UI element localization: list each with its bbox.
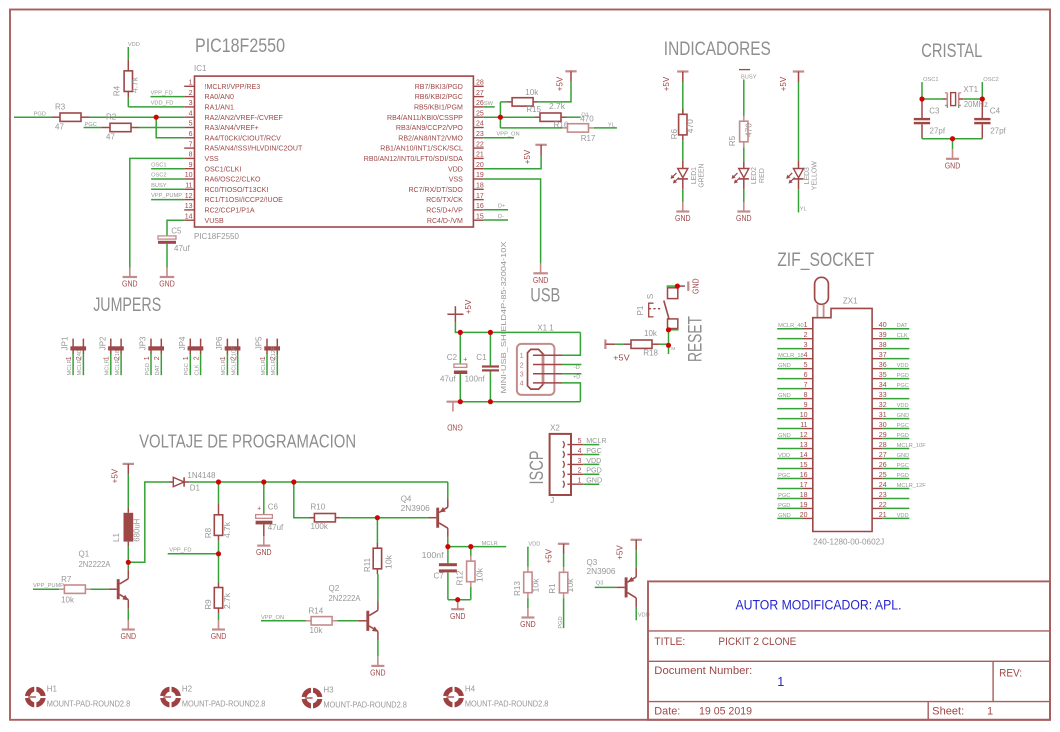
svg-text:JP5: JP5 [255,336,264,350]
svg-text:H1: H1 [47,685,58,694]
transistor Q1 2N2222A [108,588,117,590]
wire C2 top [459,332,461,364]
svg-text:MOUNT-PAD-ROUND2.8: MOUNT-PAD-ROUND2.8 [47,700,131,709]
svg-text:RB2/AN8/INT2/VMO: RB2/AN8/INT2/VMO [398,135,463,142]
svg-text:YL: YL [800,206,807,212]
wire LED3 to YL [798,189,800,212]
IC1 pin 7 RA5/AN4/!SS!/HLVDIN/C2OUT [184,147,194,149]
junction R18 node [666,343,671,348]
svg-text:1: 1 [578,478,582,485]
supply +5V (R15) [565,70,576,72]
svg-text:+5V: +5V [544,548,553,563]
svg-text:20: 20 [476,162,484,169]
IC1 pin 9 OSC1/CLKI [184,168,194,170]
ground GND (R9) [218,620,220,630]
svg-text:31: 31 [879,412,887,419]
svg-text:VPP_FD: VPP_FD [169,548,191,554]
ground GND (C7) [457,600,459,610]
wire C2 bottom [459,374,461,402]
wire Q3 collector to VDD [635,607,637,620]
svg-text:Q2: Q2 [329,584,340,593]
X1 pin 2 [533,364,562,366]
svg-text:YL: YL [608,122,615,128]
IC1 pin 27 RB6/KBI2/PGC [473,96,483,98]
ZX1 pin 11 [777,428,802,430]
wire MCLR to R12 [470,547,472,556]
ZX1 pin 12 [777,438,802,440]
ZX1 pin 30 [872,428,882,430]
ZX1 pin 26 [872,467,882,469]
wire pin20 to +5V [484,155,541,169]
svg-text:17: 17 [800,482,808,489]
wire switch bottom jog [669,329,678,330]
ground GND (Q1) [127,620,129,630]
svg-text:JUMPERS: JUMPERS [93,295,161,316]
IC1 pin 6 RA4/T0CKI/CIOUT/RCV [184,137,194,139]
node VPP_ON pin23 [484,137,514,139]
IC1 pin 15 RC4/D-/VM [473,219,483,221]
IC1 pin 3 RA1/AN1 [184,106,194,108]
junction R10 tap [291,479,296,484]
ZX1 pin 28 [872,448,882,450]
wire R2 to pin5 [139,127,184,129]
supply +5V (Q3) [631,539,642,541]
svg-text:24: 24 [476,121,484,128]
wire R14 to Q2 base [337,620,358,622]
svg-text:GND: GND [897,453,910,459]
ZX1 pin 9 [777,408,802,410]
svg-text:PGC: PGC [897,423,909,429]
mount pad H2 [163,689,179,705]
svg-text:-D: -D [574,365,580,371]
svg-text:IC1: IC1 [194,64,207,73]
svg-text:RB4/AN11/KBI0/CSSPP: RB4/AN11/KBI0/CSSPP [387,115,463,122]
junction L1/Q1 [126,560,131,565]
svg-text:28: 28 [879,442,887,449]
resistor R9 [218,583,220,588]
svg-text:OSC2: OSC2 [983,77,999,83]
supply +5V (VDD pin20) [535,144,546,146]
svg-text:22: 22 [476,141,484,148]
svg-text:2N2222A: 2N2222A [79,560,112,569]
X2 pin 3 VDD [563,461,565,468]
svg-text:RC2/CCP1/P1A: RC2/CCP1/P1A [205,208,255,215]
svg-text:2: 2 [189,90,193,97]
svg-text:2N3906: 2N3906 [587,567,617,576]
svg-text:+5V: +5V [523,149,532,164]
svg-text:VDD: VDD [586,456,601,465]
svg-text:+5V: +5V [556,76,565,91]
wire +5V to R18 [615,343,624,345]
wire +5V to R1 [563,554,565,567]
connector X2 body [550,434,571,495]
svg-text:PIC18F2550: PIC18F2550 [195,36,285,57]
wire R11 to Q2 collector [377,574,379,601]
svg-text:GND: GND [122,280,138,289]
svg-text:6: 6 [804,372,808,379]
IC1 pin 14 VUSB [184,219,194,221]
wire R11 top [376,518,378,543]
IC1 pin 19 VSS [473,178,483,180]
svg-text:R4: R4 [113,85,122,96]
node SW pin26 [484,106,495,108]
svg-text:1: 1 [777,675,784,689]
svg-text:11: 11 [800,422,807,429]
svg-text:PGC: PGC [778,473,790,479]
junction MCLR a [445,544,450,549]
wire R6 to LED1 [682,140,684,160]
ZX1 pin 36 [872,368,882,370]
svg-text:10k: 10k [385,554,394,569]
svg-text:MCLR_18: MCLR_18 [778,353,804,359]
supply +5V (R1) [558,543,569,545]
wire Q4 collector to MCLR node [447,537,449,546]
svg-text:Document Number:: Document Number: [654,665,752,677]
svg-text:PGC: PGC [897,463,909,469]
svg-text:20MHz: 20MHz [964,100,988,109]
wire Q2 emitter to GND [377,640,379,656]
svg-text:CLK: CLK [194,364,200,375]
svg-text:PGD: PGD [897,473,909,479]
ZX1 pin 10 [777,418,802,420]
svg-text:2.7k: 2.7k [223,592,232,609]
svg-text:14: 14 [800,452,808,459]
svg-text:26: 26 [879,462,887,469]
svg-text:100k: 100k [311,522,329,531]
svg-text:ZIF_SOCKET: ZIF_SOCKET [777,250,874,271]
svg-text:GND: GND [778,513,791,519]
svg-text:R11: R11 [363,557,372,572]
junction R11 tap [375,515,380,520]
resistor R16 [535,116,540,118]
svg-text:L1: L1 [112,533,121,542]
ZX1 pin 8 [777,398,802,400]
svg-text:24: 24 [879,482,887,489]
svg-text:27: 27 [879,452,887,459]
svg-text:C1: C1 [476,353,487,362]
IC1 pin 25 RB4/AN11/KBI0/CSSPP [473,116,483,118]
switch P1 actuator bracket [649,303,654,317]
svg-text:C5: C5 [171,227,182,236]
svg-text:GND: GND [159,280,175,289]
wire USB bottom rail [455,401,580,403]
svg-text:10k: 10k [532,577,541,592]
svg-text:RC4/D-/VM: RC4/D-/VM [427,218,463,225]
svg-text:VSS: VSS [205,156,219,163]
IC1 pin 10 RA6/OSC2/CLKO [184,178,194,180]
svg-text:23: 23 [476,131,484,138]
svg-text:GND: GND [533,276,549,285]
wire rail to C6 [263,482,265,515]
ground GND (USB, rotated) [447,401,463,403]
svg-text:10: 10 [800,412,808,419]
wire C1 bottom [489,372,491,402]
IC1 pin 11 RC0/TIOSO/T13CKI [184,188,194,190]
supply +5V (R18) [604,339,606,349]
svg-text:H2: H2 [182,685,193,694]
ZX1 pin 35 [872,378,882,380]
svg-text:29: 29 [879,432,887,439]
inductor L1 [127,508,129,513]
ground GND (LED2) [743,202,745,212]
wire LED2 to GND [743,189,745,202]
svg-text:10k: 10k [525,88,539,97]
svg-text:D1: D1 [190,484,201,493]
svg-text:27: 27 [476,90,484,97]
svg-text:Date:: Date: [654,706,680,718]
svg-text:22: 22 [879,502,887,509]
ZX1 pin 7 [777,388,802,390]
diode D1 1N4148 [169,481,173,483]
svg-text:+5V: +5V [615,545,624,560]
ZX1 pin 1 [777,328,802,330]
supply +5V (USB) [447,313,463,315]
supply +5V (LED1) [677,70,688,72]
svg-text:2N3906: 2N3906 [401,504,431,513]
svg-text:47uf: 47uf [440,374,456,383]
svg-text:12: 12 [800,432,808,439]
svg-text:1: 1 [987,706,993,718]
svg-text:2N2222A: 2N2222A [329,594,362,603]
svg-text:35: 35 [879,372,887,379]
svg-text:GND: GND [778,393,791,399]
svg-text:!MCLR!/VPP/RE3: !MCLR!/VPP/RE3 [205,84,261,91]
svg-text:34: 34 [879,382,887,389]
svg-text:VUSB: VUSB [205,218,224,225]
svg-text:D+: D+ [498,204,506,210]
svg-text:39: 39 [879,332,887,339]
svg-text:20: 20 [800,512,808,519]
svg-text:2.7k: 2.7k [549,102,566,111]
ZX1 pin 39 [872,338,882,340]
svg-text:RA5/AN4/!SS!/HLVDIN/C2OUT: RA5/AN4/!SS!/HLVDIN/C2OUT [205,146,303,153]
svg-text:D-: D- [498,214,504,220]
svg-text:27pf: 27pf [990,127,1006,136]
resistor R17 [562,127,567,129]
IC1 pin 23 RB2/AN8/INT2/VMO [473,137,483,139]
svg-text:R17: R17 [581,134,596,143]
wire R15 to junction [500,101,507,103]
ZX1 pin 33 [872,398,882,400]
svg-text:VDD: VDD [897,363,909,369]
svg-text:MINI-USB_SHIELD4P-85-32004-10X: MINI-USB_SHIELD4P-85-32004-10X [501,241,508,393]
svg-text:Q1: Q1 [79,550,90,559]
wire C7/R12 bottom rail [448,599,471,601]
svg-text:33: 33 [879,392,887,399]
svg-text:4: 4 [520,379,524,388]
ZX1 pin 29 [872,438,882,440]
supply +5V (L1) [123,463,134,465]
junction VPP_FD [216,551,221,556]
ZX1 pin 4 [777,358,802,360]
X1 inner shape [528,349,544,389]
capacitor C5 [158,236,176,239]
svg-text:7: 7 [189,141,193,148]
ground GND (VSS) [129,268,131,278]
svg-text:MCLR_40: MCLR_40 [778,323,804,329]
svg-text:+5V: +5V [464,299,473,314]
wire +5V to L1 [127,474,129,508]
svg-text:ISCP: ISCP [527,451,548,485]
ground GND (crystal) [952,149,954,159]
wire R8 to VPP_FD [218,541,220,554]
capacitor C3 [921,99,923,118]
svg-text:17: 17 [476,193,484,200]
svg-text:28: 28 [476,80,484,87]
ZX1 pin 21 [872,517,882,519]
ZX1 pin 19 [777,507,802,509]
capacitor C7 [439,563,457,566]
svg-text:680uH: 680uH [133,518,142,541]
svg-text:15: 15 [476,213,484,220]
node D- [484,219,508,221]
svg-text:OSC1: OSC1 [923,77,939,83]
svg-text:PGD: PGD [897,433,909,439]
wire X1 pin3 D+ [562,373,581,375]
svg-text:PIC18F2550: PIC18F2550 [194,232,239,241]
resistor R13 [527,567,529,572]
svg-text:10k: 10k [566,577,575,592]
svg-text:H4: H4 [465,685,476,694]
switch P1 upper contact [668,288,678,299]
svg-text:RA0/AN0: RA0/AN0 [205,94,234,101]
junction C6 tap [261,479,266,484]
svg-text:JP2: JP2 [98,336,107,350]
switch P1 lever [664,301,669,320]
svg-text:30: 30 [879,422,887,429]
resistor R14 [306,620,311,622]
title block frame [648,581,1050,719]
svg-text:VPP_ON: VPP_ON [497,132,520,138]
svg-text:ZX1: ZX1 [843,296,858,305]
ZX1 pin 6 [777,378,802,380]
svg-text:RC5/D+/VP: RC5/D+/VP [426,208,463,215]
svg-text:14: 14 [185,213,193,220]
ZX1 pin 3 [777,348,802,350]
wire Q1 collector [127,562,129,569]
svg-text:REV:: REV: [999,668,1022,680]
svg-text:3: 3 [189,100,193,107]
svg-text:21: 21 [476,152,484,159]
svg-text:2: 2 [520,360,524,369]
svg-text:4: 4 [189,110,193,117]
ground GND (R13) [527,608,529,618]
wire to R17 [500,127,562,129]
X1 pin 1 [533,354,562,356]
svg-text:MCLR: MCLR [105,359,111,375]
LED LED2 [743,161,745,168]
LED LED1 [682,160,684,168]
wire node up to D1 [128,482,169,562]
resistor R7 [59,588,64,590]
wire R18 to node [659,343,669,345]
svg-text:+5V: +5V [662,76,671,91]
svg-text:47uf: 47uf [174,244,190,253]
wire pin6 loop [156,117,184,138]
svg-text:MCLR_12F: MCLR_12F [271,346,277,376]
wire +5V to R6 [682,82,684,115]
svg-text:16: 16 [476,203,484,210]
svg-text:GND: GND [736,214,752,223]
svg-text:MCLR_10F: MCLR_10F [232,346,238,376]
junction R8 tap [216,479,221,484]
X1 inner wall [542,354,545,385]
resistor R2 [102,127,110,129]
wire MCLR to C7 [447,547,449,564]
svg-text:GND: GND [211,632,227,641]
svg-text:9: 9 [804,402,808,409]
svg-text:4.7k: 4.7k [223,521,232,538]
svg-text:1: 1 [183,356,190,360]
IC1 pin 18 RC7/RX/DT/SDO [473,188,483,190]
svg-text:PGC: PGC [778,493,790,499]
svg-text:13: 13 [800,442,808,449]
wire R4 to VDD_FD [127,97,129,107]
svg-text:XT1: XT1 [963,85,978,94]
svg-text:R2: R2 [106,113,117,122]
ground GND (LED1) [682,202,684,212]
svg-text:2: 2 [578,468,582,475]
svg-text:RB7/BKI3/PGD: RB7/BKI3/PGD [415,84,463,91]
svg-text:25: 25 [476,110,484,117]
svg-text:RA3/AN4/VREF+: RA3/AN4/VREF+ [205,125,259,132]
IC1 pin 20 VDD [473,168,483,170]
ZX1 pin 18 [777,497,802,499]
svg-text:GND: GND [778,363,791,369]
resistor R10 [309,517,314,519]
mount pad H1 [27,689,43,705]
svg-text:36: 36 [879,362,887,369]
svg-text:2: 2 [154,356,161,360]
svg-text:C4: C4 [990,106,1001,115]
svg-text:+: + [257,505,261,512]
svg-text:VDD: VDD [897,403,909,409]
svg-text:10k: 10k [310,626,324,635]
svg-text:RB6/KBI2/PGC: RB6/KBI2/PGC [415,94,463,101]
IC1 pin 12 RC1/T1OSI/ICCP2/!UOE [184,199,194,201]
ground GND (C5) [166,268,168,278]
wire rail to R8 [218,482,220,504]
ZX1 pin 15 [777,467,802,469]
svg-text:2: 2 [804,332,808,339]
wire R17 to YL [594,127,617,129]
X1 pin 3 [533,373,562,375]
capacitor C4 [981,99,983,118]
transistor Q3 2N3906 [616,586,625,588]
wire pin19 VSS down [484,179,541,264]
svg-text:GREEN: GREEN [697,164,706,188]
svg-text:18: 18 [476,183,484,190]
svg-text:RA6/OSC2/CLKO: RA6/OSC2/CLKO [205,177,262,184]
resistor R18 [624,343,631,345]
ground GND (Q2) [377,656,379,666]
svg-text:JP6: JP6 [215,336,224,350]
svg-text:MCLR_18: MCLR_18 [115,350,121,376]
svg-text:8: 8 [189,152,193,159]
IC1 pin 22 RB1/AN10/INT1/SCK/SCL [473,147,483,149]
wire crystal gnd rail [922,138,982,140]
svg-text:RB1/AN10/INT1/SCK/SCL: RB1/AN10/INT1/SCK/SCL [380,146,463,153]
junction crystal gnd [950,136,955,141]
svg-text:GND: GND [778,433,791,439]
junction C2 bottom [458,399,463,404]
svg-text:Q4: Q4 [401,494,412,503]
svg-text:PGD: PGD [778,503,790,509]
svg-text:38: 38 [879,342,887,349]
svg-text:DAT: DAT [155,364,161,375]
svg-text:TITLE:: TITLE: [654,636,685,648]
svg-text:RB3/AN9/CCP2/VPO: RB3/AN9/CCP2/VPO [396,125,463,132]
